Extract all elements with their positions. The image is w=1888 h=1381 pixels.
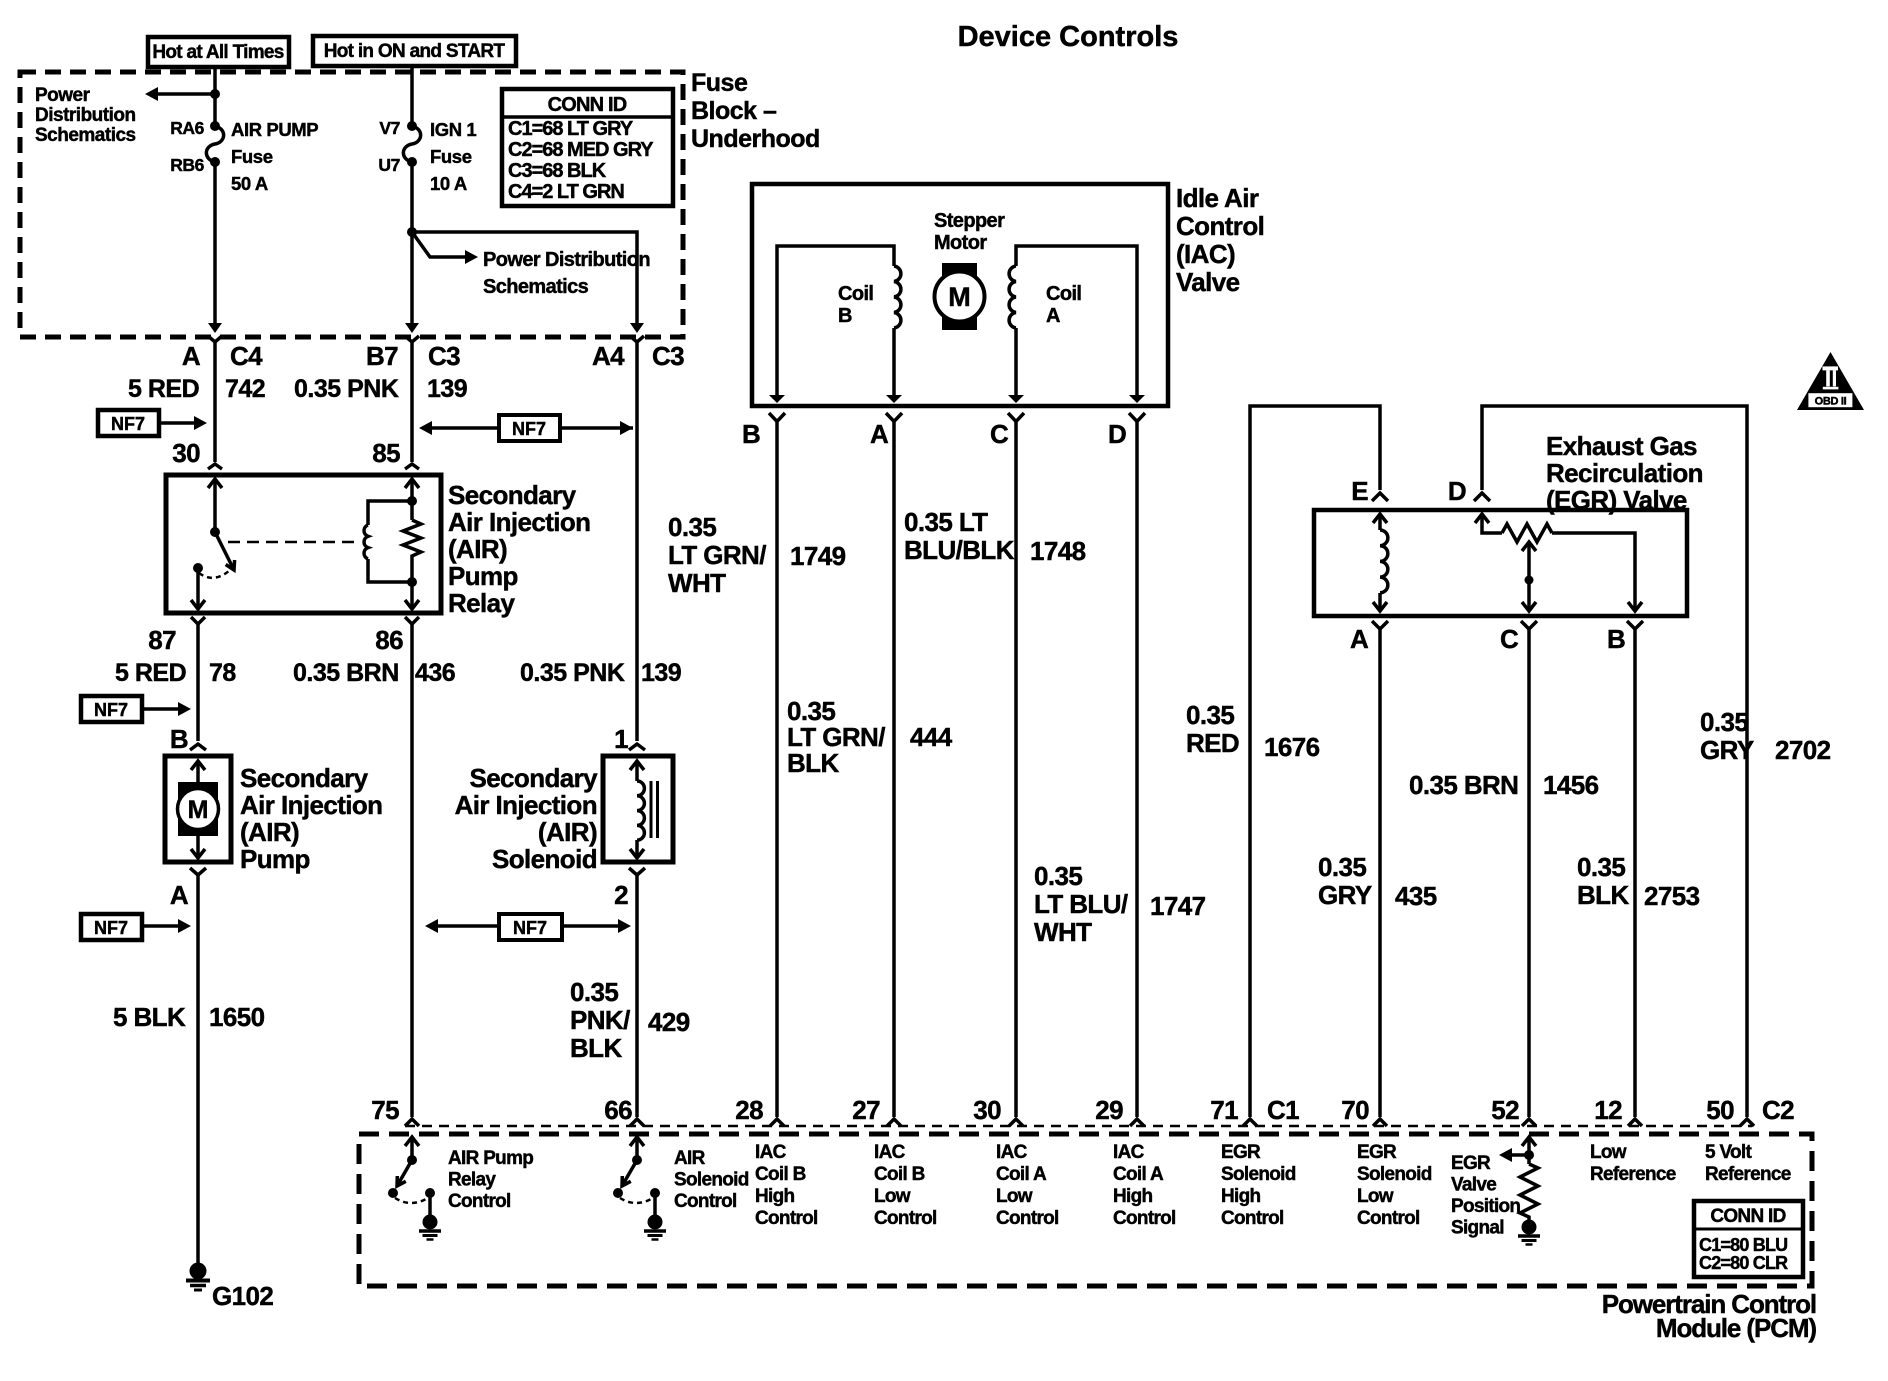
svg-text:NF7: NF7 xyxy=(111,414,145,434)
svg-text:0.35: 0.35 xyxy=(668,512,716,542)
svg-text:Valve: Valve xyxy=(1451,1175,1496,1196)
connector PCM pin 27 xyxy=(852,1095,901,1126)
label 0.35 GRY 435 xyxy=(1318,852,1437,911)
label V7 U7 xyxy=(378,118,400,175)
label Exhaust Gas Recirculation (EGR) Valve xyxy=(1546,431,1703,515)
connector EGR pin C xyxy=(1500,621,1537,654)
fuse IGN 1 10A xyxy=(403,121,420,167)
relay coil xyxy=(364,501,412,582)
connector EGR pin B xyxy=(1607,621,1643,654)
svg-text:30: 30 xyxy=(973,1095,1001,1125)
svg-text:C3=68 BLK: C3=68 BLK xyxy=(508,160,607,182)
svg-text:50: 50 xyxy=(1706,1095,1734,1125)
svg-text:C4: C4 xyxy=(230,341,263,371)
ground at PCM pin 52 input xyxy=(1518,1220,1540,1245)
svg-text:Control: Control xyxy=(1113,1208,1176,1229)
svg-text:435: 435 xyxy=(1395,881,1437,911)
label 0.35 LT BLU/BLK 1748 xyxy=(904,507,1086,566)
relay coil branch wire (pin 85) xyxy=(405,479,419,609)
connector EGR pin E xyxy=(1351,476,1388,506)
svg-text:86: 86 xyxy=(375,625,403,655)
label 0.35 LT GRN/ BLK 444 xyxy=(787,696,953,778)
svg-text:C2=80 CLR: C2=80 CLR xyxy=(1699,1253,1788,1273)
connector EGR pin A xyxy=(1350,621,1388,654)
svg-text:C4=2 LT GRN: C4=2 LT GRN xyxy=(508,181,624,203)
arrow to power distribution schematics (left) xyxy=(156,92,215,96)
OBD II symbol xyxy=(1797,352,1864,410)
svg-text:1748: 1748 xyxy=(1030,536,1086,566)
svg-text:WHT: WHT xyxy=(668,568,726,598)
svg-text:WHT: WHT xyxy=(1034,917,1092,947)
connector PCM pin 50 C2 xyxy=(1706,1095,1794,1126)
svg-text:C1=80 BLU: C1=80 BLU xyxy=(1699,1235,1787,1255)
svg-text:Air Injection: Air Injection xyxy=(448,507,590,537)
relay switch contact to pin 87 xyxy=(191,563,230,609)
label 5 RED 742 xyxy=(128,375,265,403)
svg-text:Secondary: Secondary xyxy=(469,763,598,793)
IAC coil B xyxy=(769,246,902,403)
svg-text:Secondary: Secondary xyxy=(240,763,369,793)
svg-text:Valve: Valve xyxy=(1176,267,1240,297)
svg-text:D: D xyxy=(1108,419,1126,449)
svg-text:0.35 PNK: 0.35 PNK xyxy=(520,659,625,687)
wire 1650 pump A to G102 xyxy=(196,875,200,1263)
svg-text:1676: 1676 xyxy=(1264,732,1320,762)
EGR position sensor resistor xyxy=(1475,514,1642,611)
label 0.35 BLK 2753 xyxy=(1577,852,1700,911)
svg-text:0.35: 0.35 xyxy=(570,977,618,1007)
svg-text:Pump: Pump xyxy=(448,561,518,591)
label IAC Coil A High Control xyxy=(1113,1142,1176,1229)
svg-text:B: B xyxy=(742,419,760,449)
svg-text:C: C xyxy=(990,419,1009,449)
label AIR PUMP Fuse 50 A xyxy=(231,119,318,194)
svg-text:(AIR): (AIR) xyxy=(240,817,299,847)
wire solenoid 2 to PCM 66 xyxy=(635,875,639,1117)
svg-text:0.35: 0.35 xyxy=(1577,852,1625,882)
ground at PCM pin 66 driver xyxy=(644,1215,666,1240)
relay switch common (pin 30) xyxy=(208,479,222,537)
label Coil B xyxy=(838,283,873,327)
svg-text:G102: G102 xyxy=(212,1281,273,1311)
svg-text:Recirculation: Recirculation xyxy=(1546,458,1703,488)
svg-text:Control: Control xyxy=(874,1208,937,1229)
svg-text:Coil: Coil xyxy=(838,283,873,305)
svg-text:CONN ID: CONN ID xyxy=(548,94,627,116)
label Coil A xyxy=(1046,283,1081,327)
IAC valve box xyxy=(752,184,1168,406)
svg-text:29: 29 xyxy=(1095,1095,1123,1125)
EGR position sensor wiper xyxy=(1522,542,1536,611)
IAC coil A xyxy=(1008,246,1145,403)
label Stepper Motor xyxy=(934,210,1005,254)
svg-text:Air Injection: Air Injection xyxy=(455,790,597,820)
wire 742 connector to relay 30 xyxy=(213,342,217,462)
svg-text:5 BLK: 5 BLK xyxy=(113,1002,186,1032)
svg-text:Reference: Reference xyxy=(1705,1164,1791,1185)
svg-text:High: High xyxy=(1221,1186,1261,1207)
label Secondary Air Injection (AIR) Pump Relay xyxy=(448,480,590,618)
svg-text:Low: Low xyxy=(1590,1142,1627,1163)
svg-text:C2=68 MED GRY: C2=68 MED GRY xyxy=(508,139,654,161)
relay resistor xyxy=(403,520,421,560)
svg-text:(AIR): (AIR) xyxy=(538,817,597,847)
connector pin 30 chevron xyxy=(208,464,222,469)
wire EGR D feed to PCM 50 xyxy=(1482,406,1747,1117)
svg-text:0.35: 0.35 xyxy=(1318,852,1366,882)
svg-text:CONN ID: CONN ID xyxy=(1710,1206,1785,1227)
svg-text:C2: C2 xyxy=(1762,1095,1794,1125)
svg-text:Solenoid: Solenoid xyxy=(492,844,597,874)
svg-text:Motor: Motor xyxy=(934,232,987,254)
label 0.35 BRN 1456 xyxy=(1409,770,1599,800)
label RA6 RB6 xyxy=(170,118,204,175)
svg-text:Distribution: Distribution xyxy=(35,105,136,126)
PCM dashed box Powertrain Control Module xyxy=(359,1134,1812,1286)
AIR pump box xyxy=(165,756,231,862)
svg-text:EGR: EGR xyxy=(1451,1153,1491,1174)
node ignition branch xyxy=(407,227,417,237)
svg-text:Coil B: Coil B xyxy=(755,1164,806,1185)
svg-text:12: 12 xyxy=(1594,1095,1622,1125)
ground G102 xyxy=(186,1263,273,1312)
svg-text:1456: 1456 xyxy=(1543,770,1599,800)
svg-text:Air Injection: Air Injection xyxy=(240,790,382,820)
NF7 reference 4 xyxy=(81,914,191,940)
svg-text:436: 436 xyxy=(415,659,455,687)
connector PCM pin 30 xyxy=(973,1095,1023,1126)
label IAC Coil B Low Control xyxy=(874,1142,937,1229)
svg-text:LT BLU/: LT BLU/ xyxy=(1034,889,1128,919)
NF7 reference 1 xyxy=(98,410,207,436)
svg-text:Module (PCM): Module (PCM) xyxy=(1656,1313,1817,1343)
svg-text:NF7: NF7 xyxy=(94,700,128,720)
svg-text:B: B xyxy=(1607,624,1625,654)
label Powertrain Control Module (PCM) xyxy=(1602,1289,1817,1343)
svg-text:2: 2 xyxy=(614,880,628,910)
connector PCM pin 75 xyxy=(371,1095,419,1126)
svg-text:139: 139 xyxy=(427,375,467,403)
svg-text:78: 78 xyxy=(209,659,236,687)
pump motor M xyxy=(178,761,219,858)
label Low Reference xyxy=(1590,1142,1676,1185)
feed box Hot in ON and START xyxy=(313,36,516,66)
svg-text:PNK/: PNK/ xyxy=(570,1005,630,1035)
svg-text:1650: 1650 xyxy=(209,1002,265,1032)
connector PCM pin 12 xyxy=(1594,1095,1642,1126)
svg-text:Power Distribution: Power Distribution xyxy=(483,249,650,271)
svg-text:Schematics: Schematics xyxy=(483,276,589,298)
svg-text:0.35: 0.35 xyxy=(1186,700,1234,730)
svg-text:Device Controls: Device Controls xyxy=(958,21,1179,53)
svg-text:AIR: AIR xyxy=(674,1148,706,1169)
wire battery feed to AIR PUMP fuse xyxy=(213,67,217,126)
label AIR Solenoid Control xyxy=(674,1148,749,1212)
svg-text:Underhood: Underhood xyxy=(691,125,820,153)
solenoid coil xyxy=(630,761,658,858)
svg-text:RB6: RB6 xyxy=(170,155,204,175)
svg-text:High: High xyxy=(755,1186,795,1207)
svg-text:10 A: 10 A xyxy=(430,173,467,194)
svg-text:85: 85 xyxy=(372,438,400,468)
connector pin 87 chevron xyxy=(191,617,205,624)
svg-text:IAC: IAC xyxy=(1113,1142,1145,1163)
svg-text:1: 1 xyxy=(614,724,628,754)
label IAC Coil A Low Control xyxy=(996,1142,1059,1229)
svg-text:RA6: RA6 xyxy=(170,118,204,138)
svg-text:BLK: BLK xyxy=(570,1033,622,1063)
wire EGR E feed from PCM 71 xyxy=(1250,406,1380,1117)
label 0.35 LT GRN/ WHT 1749 xyxy=(668,512,846,598)
NF7 reference 2 double arrow xyxy=(419,415,633,441)
PCM EGR position signal input at pin 52 xyxy=(1499,1137,1538,1220)
connector EGR pin D xyxy=(1448,476,1490,506)
connector B7 C3 xyxy=(366,336,460,371)
svg-text:Stepper: Stepper xyxy=(934,210,1005,232)
connector IAC pin A xyxy=(870,413,902,449)
svg-text:RED: RED xyxy=(1186,728,1239,758)
label 5 Volt Reference xyxy=(1705,1142,1791,1185)
label Secondary Air Injection (AIR) Pump xyxy=(240,763,382,874)
relay box Secondary Air Injection (AIR) Pump Relay xyxy=(166,475,441,613)
svg-text:Schematics: Schematics xyxy=(35,125,136,146)
conn id table PCM xyxy=(1694,1201,1803,1277)
svg-text:B: B xyxy=(838,305,852,327)
conn id table fuse block xyxy=(502,89,673,206)
connector pump pin B chevron xyxy=(190,744,206,750)
svg-text:Solenoid: Solenoid xyxy=(674,1170,749,1191)
label EGR Valve Position Signal xyxy=(1451,1153,1520,1239)
svg-text:C: C xyxy=(1500,624,1519,654)
svg-text:Control: Control xyxy=(674,1191,737,1212)
fuse block dashed box (Fuse Block - Underhood) xyxy=(20,72,683,337)
svg-text:Low: Low xyxy=(996,1186,1033,1207)
svg-text:Control: Control xyxy=(1357,1208,1420,1229)
svg-text:Coil B: Coil B xyxy=(874,1164,925,1185)
label IGN 1 Fuse 10 A xyxy=(430,119,476,194)
svg-text:EGR: EGR xyxy=(1357,1142,1397,1163)
svg-text:2753: 2753 xyxy=(1644,881,1700,911)
label 0.35 LT BLU/ WHT 1747 xyxy=(1034,861,1206,947)
svg-text:Fuse: Fuse xyxy=(430,146,472,167)
svg-text:Exhaust Gas: Exhaust Gas xyxy=(1546,431,1697,461)
svg-text:A4: A4 xyxy=(592,341,625,371)
svg-text:1749: 1749 xyxy=(790,541,846,571)
wire 444 IAC A to PCM 27 xyxy=(892,422,896,1118)
wire 2753 EGR B to PCM 12 xyxy=(1633,629,1637,1117)
svg-text:C3: C3 xyxy=(428,341,460,371)
AIR solenoid box xyxy=(603,756,673,862)
svg-text:52: 52 xyxy=(1491,1095,1519,1125)
connector PCM pin 71 C1 xyxy=(1210,1095,1299,1126)
NF7 reference 5 double arrow xyxy=(425,914,631,940)
connector PCM pin 28 xyxy=(735,1095,784,1126)
label EGR Solenoid Low Control xyxy=(1357,1142,1432,1229)
NF7 reference 3 xyxy=(81,696,191,722)
svg-text:NF7: NF7 xyxy=(512,419,546,439)
wire fuse RB6 down to connector C4 xyxy=(213,162,217,324)
svg-text:V7: V7 xyxy=(379,118,400,138)
wire 78 relay 87 to AIR pump B xyxy=(196,624,200,741)
svg-text:Low: Low xyxy=(874,1186,911,1207)
arrow to power distribution schematics (right) xyxy=(412,232,468,257)
svg-text:Control: Control xyxy=(448,1191,511,1212)
svg-text:70: 70 xyxy=(1341,1095,1369,1125)
wire 139 connector to relay 85 xyxy=(410,342,414,462)
svg-text:Fuse: Fuse xyxy=(691,69,748,97)
svg-text:IAC: IAC xyxy=(996,1142,1028,1163)
svg-text:C3: C3 xyxy=(652,341,684,371)
label 5 BLK 1650 xyxy=(113,1002,265,1032)
relay switch blade xyxy=(215,532,235,570)
label EGR Solenoid High Control xyxy=(1221,1142,1296,1229)
EGR valve box xyxy=(1314,510,1687,616)
connector pin 85 chevron xyxy=(405,464,419,469)
svg-text:0.35 PNK: 0.35 PNK xyxy=(294,375,399,403)
label Idle Air Control (IAC) Valve xyxy=(1176,183,1264,297)
connector solenoid pin 1 chevron xyxy=(629,744,645,750)
wire ignition feed to IGN 1 fuse xyxy=(410,66,414,126)
svg-text:GRY: GRY xyxy=(1700,735,1754,765)
label Fuse Block - Underhood xyxy=(691,69,820,153)
connector IAC pin C xyxy=(990,413,1024,449)
label 0.35 PNK 139 (lower) xyxy=(520,659,681,687)
svg-text:M: M xyxy=(948,282,971,312)
svg-text:5 Volt: 5 Volt xyxy=(1705,1142,1752,1163)
svg-text:28: 28 xyxy=(735,1095,763,1125)
svg-text:50 A: 50 A xyxy=(231,173,268,194)
label 0.35 RED 1676 xyxy=(1186,700,1320,762)
svg-text:66: 66 xyxy=(604,1095,632,1125)
wire 435 EGR A to PCM 70 xyxy=(1378,629,1382,1117)
wire branch to A4 C3 xyxy=(412,232,637,324)
PCM driver switch at pin 66 xyxy=(613,1137,660,1215)
connector IAC pin B xyxy=(742,413,785,449)
label Power Distribution Schematics (left) xyxy=(35,85,136,146)
svg-text:A: A xyxy=(870,419,889,449)
svg-text:Fuse: Fuse xyxy=(231,146,273,167)
svg-text:Power: Power xyxy=(35,85,91,106)
connector IAC pin D xyxy=(1108,413,1145,449)
svg-text:A: A xyxy=(1046,305,1060,327)
svg-text:B7: B7 xyxy=(366,341,398,371)
svg-text:Coil A: Coil A xyxy=(1113,1164,1164,1185)
svg-text:Solenoid: Solenoid xyxy=(1357,1164,1432,1185)
connector PCM pin 52 xyxy=(1491,1095,1536,1126)
EGR solenoid coil xyxy=(1373,514,1388,611)
svg-text:GRY: GRY xyxy=(1318,880,1372,910)
connector pump pin A chevron xyxy=(190,868,206,875)
svg-text:AIR PUMP: AIR PUMP xyxy=(231,119,318,140)
feed box Hot at All Times xyxy=(148,37,289,67)
svg-text:Relay: Relay xyxy=(448,588,516,618)
svg-text:Solenoid: Solenoid xyxy=(1221,1164,1296,1185)
svg-text:444: 444 xyxy=(910,722,953,752)
label 0.35 GRY 2702 xyxy=(1700,707,1831,765)
svg-text:5 RED: 5 RED xyxy=(128,375,199,403)
svg-text:AIR Pump: AIR Pump xyxy=(448,1148,533,1169)
svg-text:A: A xyxy=(170,880,189,910)
wire fuse U7 down to connector C3 xyxy=(410,162,414,324)
svg-text:Pump: Pump xyxy=(240,844,310,874)
connector PCM pin 70 xyxy=(1341,1095,1387,1126)
svg-text:E: E xyxy=(1351,476,1368,506)
svg-text:Relay: Relay xyxy=(448,1170,496,1191)
svg-text:C1: C1 xyxy=(1267,1095,1299,1125)
label 5 RED 78 xyxy=(115,659,236,687)
svg-text:27: 27 xyxy=(852,1095,880,1125)
svg-text:Position: Position xyxy=(1451,1196,1520,1217)
label AIR Pump Relay Control xyxy=(448,1148,533,1212)
svg-text:NF7: NF7 xyxy=(94,918,128,938)
svg-text:742: 742 xyxy=(225,375,265,403)
wire 1749 IAC B to PCM 28 xyxy=(775,422,779,1118)
svg-text:Hot in ON and START: Hot in ON and START xyxy=(324,41,506,62)
svg-text:EGR: EGR xyxy=(1221,1142,1261,1163)
connector solenoid pin 2 chevron xyxy=(629,868,645,875)
svg-text:Control: Control xyxy=(755,1208,818,1229)
connector A C4 xyxy=(182,336,263,371)
svg-text:0.35: 0.35 xyxy=(1034,861,1082,891)
svg-text:Coil: Coil xyxy=(1046,283,1081,305)
svg-text:(AIR): (AIR) xyxy=(448,534,507,564)
svg-text:75: 75 xyxy=(371,1095,399,1125)
svg-text:IGN 1: IGN 1 xyxy=(430,119,476,140)
svg-text:Hot at All Times: Hot at All Times xyxy=(152,42,283,63)
svg-text:BLK: BLK xyxy=(1577,880,1629,910)
wire 1748 IAC D to PCM 29 xyxy=(1135,422,1139,1118)
svg-text:IAC: IAC xyxy=(874,1142,906,1163)
svg-text:0.35 LT: 0.35 LT xyxy=(904,507,988,537)
svg-text:A: A xyxy=(1350,624,1369,654)
svg-text:0.35 BRN: 0.35 BRN xyxy=(293,659,399,687)
fuse AIR PUMP 50A xyxy=(206,121,223,167)
svg-text:2702: 2702 xyxy=(1775,735,1831,765)
svg-text:Signal: Signal xyxy=(1451,1218,1504,1239)
svg-text:U7: U7 xyxy=(378,155,400,175)
wire 429 connector to solenoid 1 xyxy=(635,342,639,741)
svg-text:B: B xyxy=(170,724,188,754)
svg-text:0.35: 0.35 xyxy=(1700,707,1748,737)
connector PCM pin 29 xyxy=(1095,1095,1144,1126)
svg-text:Control: Control xyxy=(1176,211,1264,241)
label IAC Coil B High Control xyxy=(755,1142,818,1229)
svg-text:429: 429 xyxy=(648,1007,690,1037)
label 0.35 BRN 436 xyxy=(293,659,455,687)
svg-text:(IAC): (IAC) xyxy=(1176,239,1235,269)
svg-text:Coil A: Coil A xyxy=(996,1164,1047,1185)
svg-text:Low: Low xyxy=(1357,1186,1394,1207)
svg-text:139: 139 xyxy=(641,659,681,687)
connector pin 86 chevron xyxy=(405,617,419,624)
label 0.35 PNK/ BLK 429 xyxy=(570,977,690,1063)
wire 1456 EGR C to PCM 52 xyxy=(1527,629,1531,1117)
connector face dashed line at PCM xyxy=(405,1125,1752,1128)
svg-text:IAC: IAC xyxy=(755,1142,787,1163)
svg-text:Secondary: Secondary xyxy=(448,480,577,510)
svg-text:OBD II: OBD II xyxy=(1815,396,1847,408)
svg-text:High: High xyxy=(1113,1186,1153,1207)
relay dashed actuation link xyxy=(228,541,356,544)
svg-text:1747: 1747 xyxy=(1150,891,1206,921)
svg-text:C1=68 LT GRY: C1=68 LT GRY xyxy=(508,118,634,140)
svg-text:0.35 BRN: 0.35 BRN xyxy=(1409,770,1518,800)
label Power Distribution Schematics (right) xyxy=(483,249,650,298)
connector PCM pin 66 xyxy=(604,1095,644,1126)
svg-text:BLU/BLK: BLU/BLK xyxy=(904,535,1015,565)
svg-text:Reference: Reference xyxy=(1590,1164,1676,1185)
svg-text:87: 87 xyxy=(148,625,176,655)
